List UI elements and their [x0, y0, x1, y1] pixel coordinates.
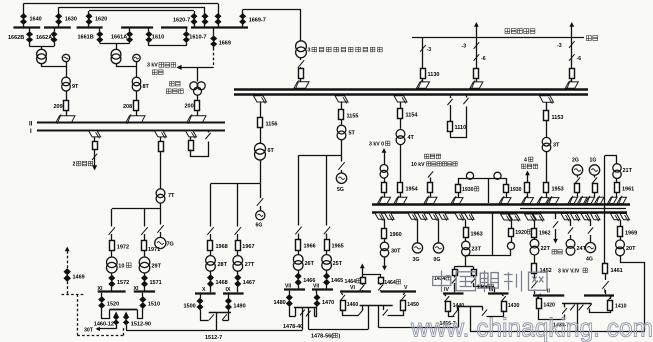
- generator 0G: [433, 243, 443, 253]
- fuse 2G: [575, 184, 580, 198]
- svg-text:-3: -3: [427, 47, 432, 53]
- label X: [202, 287, 206, 293]
- feeder line 572: [569, 22, 574, 69]
- svg-text:28T: 28T: [218, 262, 228, 268]
- slash no.3: [298, 58, 304, 68]
- load connector 208: [126, 114, 145, 124]
- wire 3G: [417, 219, 419, 242]
- breaker 1640: [20, 14, 26, 25]
- wire 6T upper: [260, 102, 262, 118]
- label 1456-7: [440, 321, 456, 327]
- breaker 1620: [86, 14, 92, 25]
- wire PT loop: [191, 142, 209, 157]
- bus section V: [380, 290, 416, 292]
- slash 1434yi: [452, 276, 457, 283]
- svg-text:30T: 30T: [84, 328, 94, 334]
- wire 30T down-arrow: [384, 257, 386, 266]
- label 22T: [541, 246, 551, 252]
- label VIII: [285, 284, 292, 290]
- label 24T: [577, 246, 587, 252]
- label 1155: [347, 114, 359, 120]
- fuse 1968: [208, 234, 213, 251]
- connector 22T below bus: [525, 214, 545, 222]
- svg-text:VII: VII: [285, 284, 292, 290]
- label 1572: [117, 280, 129, 286]
- breaker 1460-12: [113, 312, 119, 329]
- bus section IX: [223, 292, 244, 294]
- breaker 1661A: [127, 28, 133, 43]
- wire 1461 chain: [604, 263, 607, 265]
- label 6G: [256, 223, 263, 229]
- wire 1930jia drop: [458, 178, 460, 185]
- transformer 25T: [322, 251, 332, 271]
- svg-text:1460-12: 1460-12: [94, 322, 114, 328]
- bus section X: [195, 292, 216, 294]
- label II-sec: [547, 289, 550, 295]
- bridge bar VIII-VII: [294, 307, 316, 309]
- wire-6G: [260, 184, 262, 211]
- label 1465: [331, 278, 343, 284]
- wire drop x=194: [194, 11, 196, 27]
- svg-text:X: X: [202, 287, 206, 293]
- bus section IV: [443, 292, 464, 294]
- label 1461: [611, 268, 623, 274]
- breaker 1610: [146, 28, 152, 46]
- svg-text:1920: 1920: [515, 230, 527, 236]
- slash 1110 right: [463, 96, 468, 104]
- slash -6 (476): [474, 54, 480, 61]
- slash -3 (476): [474, 42, 480, 49]
- svg-text:1669: 1669: [219, 41, 231, 47]
- transformer 20T: [616, 237, 625, 256]
- label 208: [123, 104, 132, 110]
- bus section VIII: [284, 288, 305, 290]
- slash 1434jia: [471, 276, 476, 283]
- transformer 26T: [293, 251, 303, 271]
- load connector 209: [56, 114, 75, 124]
- label 23T: [472, 247, 482, 253]
- label 1962: [539, 231, 551, 237]
- wire 1930yi top: [488, 178, 506, 180]
- label 1669-7: [249, 18, 266, 24]
- svg-text:): ): [339, 334, 341, 340]
- svg-text:XI: XI: [98, 286, 103, 292]
- wire 7T header: [112, 203, 161, 209]
- connector 1920 below bus: [501, 214, 521, 222]
- label -6 (572): [577, 56, 582, 62]
- outgoing header line: [412, 37, 584, 39]
- svg-text:VI: VI: [350, 285, 355, 291]
- wire bridge drop left: [300, 308, 305, 331]
- svg-text:V: V: [404, 285, 408, 291]
- label 1469: [73, 275, 85, 281]
- svg-text:5G: 5G: [337, 187, 344, 193]
- svg-text:25T: 25T: [333, 261, 343, 267]
- outgoing feeder connector: [89, 131, 101, 139]
- transformer 22T: [530, 237, 539, 255]
- label 3kV V-IV section (CJK): [558, 268, 587, 274]
- fuse 1420: [536, 294, 541, 309]
- svg-text:8T: 8T: [143, 84, 150, 90]
- label 10kV loads (CJK): [411, 154, 457, 168]
- PT circle 1920: [507, 237, 514, 250]
- svg-text:26T: 26T: [305, 261, 315, 267]
- svg-text:www. chinaqking. com: www. chinaqking. com: [410, 313, 653, 342]
- watermark wang: [529, 272, 548, 290]
- wire 1470 link: [315, 308, 318, 317]
- label 1452: [540, 268, 552, 274]
- label 1467: [243, 280, 255, 286]
- slash 1464jia: [378, 284, 383, 291]
- breaker 1490: [225, 294, 231, 320]
- label 1156: [266, 122, 278, 128]
- wire 1461 drop: [604, 156, 606, 264]
- label 1662A: [36, 35, 52, 41]
- fuse 1971: [142, 234, 147, 251]
- bridge bar XII-XI: [109, 309, 137, 311]
- wire 4T down: [400, 145, 402, 184]
- feeder 1130: [420, 37, 426, 68]
- wire drop 28T: [210, 184, 212, 227]
- label 1571: [150, 280, 162, 286]
- fuse 1953: [544, 183, 549, 193]
- svg-text:1571: 1571: [150, 280, 162, 286]
- label 3T: [553, 143, 560, 149]
- label VII: [313, 284, 320, 290]
- svg-text:IV: IV: [444, 287, 449, 293]
- slash 2G: [575, 175, 580, 183]
- label 1965: [332, 244, 344, 250]
- label 7G: [167, 242, 174, 248]
- label XI: [134, 286, 139, 292]
- wire fuse200 to bus: [197, 110, 199, 116]
- wire 1434-7 interconnect: [470, 331, 645, 333]
- wire 1430 link: [487, 311, 504, 317]
- arrow load down: [553, 239, 558, 244]
- fuse 1969: [618, 220, 623, 237]
- svg-text:1965: 1965: [332, 244, 344, 250]
- svg-text:1480: 1480: [274, 300, 286, 306]
- wire 572 to bus: [571, 78, 573, 82]
- svg-text:1953: 1953: [552, 187, 564, 193]
- wire bridge drop right: [306, 308, 311, 330]
- transformer 21T: [613, 164, 621, 179]
- breaker 1469: [64, 269, 71, 282]
- svg-text:23T: 23T: [472, 247, 482, 253]
- svg-text:-3: -3: [557, 43, 562, 49]
- label 1954: [406, 187, 419, 193]
- fuse 10kV loads: [428, 178, 433, 193]
- label 4 load lines (CJK): [522, 157, 538, 168]
- svg-text:27T: 27T: [245, 262, 255, 268]
- wire top line D to standby transformer: [243, 9, 301, 11]
- svg-text:1661A: 1661A: [111, 35, 127, 41]
- svg-text:6G: 6G: [256, 223, 263, 229]
- fuse 1153: [544, 111, 549, 121]
- svg-text:1969: 1969: [625, 231, 637, 237]
- label 4G: [586, 257, 593, 263]
- breaker (line B tie): [202, 14, 208, 25]
- svg-text:20T: 20T: [626, 246, 636, 252]
- label new startup transformer (CJK): [167, 81, 184, 93]
- wire 9T to fuse: [66, 91, 68, 100]
- wire 3kV0 to bus: [384, 193, 386, 198]
- generator 5G: [336, 170, 346, 183]
- wire 22T-1452: [534, 255, 536, 264]
- wire 1669 dashed drop: [213, 48, 215, 67]
- PT circle (1662 unit): [62, 54, 69, 61]
- label 1920jia: [515, 230, 531, 236]
- label -6 (476): [481, 56, 486, 62]
- wire outgoing with slash: [92, 150, 97, 166]
- svg-text:1662B: 1662B: [8, 35, 24, 41]
- wire 3T down: [546, 152, 548, 183]
- bus section II: [533, 294, 564, 296]
- connector 1930jia on bus: [451, 196, 463, 205]
- label 4T: [408, 135, 415, 141]
- slash 28T: [207, 227, 213, 235]
- label 1630: [65, 17, 77, 23]
- breaker 1669-7: [240, 14, 246, 25]
- label 1434jia: [477, 284, 493, 290]
- label 1480: [274, 300, 286, 306]
- wire bridge drop W3: [368, 306, 370, 330]
- label 1953: [552, 187, 564, 193]
- svg-text:-6: -6: [481, 56, 486, 62]
- bus segment 161-187.5: [161, 26, 188, 28]
- bus segment 191-248: [191, 26, 248, 28]
- fuse no.3: [299, 67, 304, 79]
- connector no.3 on bus: [294, 80, 309, 90]
- label 5T: [349, 131, 356, 137]
- 10kV bus upper: [372, 203, 630, 206]
- slash 24T: [568, 220, 573, 240]
- label 1610-7: [189, 35, 206, 41]
- svg-text:1963: 1963: [471, 232, 483, 238]
- svg-text:1430: 1430: [508, 303, 520, 309]
- label side bus (CJK): [587, 36, 598, 41]
- label 1154: [406, 113, 419, 119]
- svg-text:1930: 1930: [510, 187, 522, 193]
- arrow up 1464yi: [360, 264, 365, 269]
- breaker 1572: [109, 273, 115, 291]
- label XII: [98, 286, 103, 292]
- breaker 1630: [56, 14, 62, 25]
- wire dashed 1469 lower: [67, 282, 69, 295]
- label 1963: [471, 232, 483, 238]
- label IV: [444, 287, 449, 293]
- fuse 1155: [339, 110, 344, 120]
- svg-text:1460: 1460: [347, 302, 359, 308]
- label 1460: [347, 302, 359, 308]
- wire drop x=242.7: [242, 10, 244, 28]
- fuse 1440: [446, 302, 451, 312]
- svg-text:VII: VII: [313, 284, 320, 290]
- label III: [489, 287, 494, 293]
- slash 25T: [324, 227, 330, 235]
- connector 476 on bus: [470, 80, 483, 89]
- svg-text:3T: 3T: [553, 143, 560, 149]
- wire top line C: [89, 10, 194, 12]
- label no.3 standby transformer (CJK): [308, 47, 383, 53]
- wire drop 25T: [326, 155, 328, 225]
- label 1440: [453, 303, 465, 309]
- bridge bar VI-V: [360, 305, 393, 307]
- svg-text:3: 3: [308, 48, 311, 54]
- arrow 4 load lines: [525, 171, 530, 176]
- breaker 1610-7: [183, 28, 189, 46]
- label 30T: [84, 328, 94, 334]
- svg-text:1490: 1490: [233, 304, 245, 310]
- svg-text:2: 2: [73, 162, 76, 168]
- breaker 1571: [141, 273, 147, 291]
- wire drop 29T: [144, 209, 146, 227]
- label 1669: [219, 41, 231, 47]
- fuse 1464yi: [361, 278, 366, 284]
- label 1420: [543, 303, 555, 309]
- label V: [404, 285, 408, 291]
- wire bridge drop W4: [378, 306, 380, 328]
- label 3kV spare section (CJK): [147, 63, 176, 75]
- wire 1410 link: [590, 309, 611, 313]
- wire 1512-7 interconnect: [126, 330, 302, 332]
- slash 1G: [592, 175, 597, 183]
- wire 1930jia to bus: [458, 193, 460, 198]
- label 4 outgoing lines (CJK): [505, 29, 535, 34]
- arrow 30T down: [382, 266, 387, 271]
- label 26T: [305, 261, 315, 267]
- svg-text:1420: 1420: [543, 303, 555, 309]
- wire 1434 header: [454, 267, 473, 270]
- label 2 outgoing lines (CJK): [73, 161, 93, 167]
- wire join 1661: [100, 43, 130, 50]
- wire 3kV0: [384, 153, 386, 165]
- svg-text:1130: 1130: [428, 72, 440, 78]
- connector 0G below bus: [429, 213, 448, 221]
- bus I: [37, 130, 225, 132]
- wire dashed riser: [123, 327, 125, 336]
- slash 1450: [401, 293, 406, 301]
- svg-text:1966: 1966: [304, 244, 316, 250]
- label IX: [226, 287, 231, 293]
- slash 7G: [157, 225, 163, 233]
- label 1930jia: [462, 187, 479, 193]
- fuse 209: [64, 101, 69, 111]
- fuse 1965: [325, 234, 330, 251]
- label 1464yi: [345, 279, 361, 285]
- slash 1460-bridge: [358, 306, 363, 316]
- label I-sec: [604, 289, 606, 295]
- connector 4loads on bus: [522, 196, 534, 205]
- bus segment 13.4-40.2: [13, 26, 40, 28]
- connector 3kV0 on 10kV bus: [378, 196, 391, 205]
- label 1966: [304, 244, 316, 250]
- label II: [29, 122, 33, 128]
- label 20T: [626, 246, 636, 252]
- fuse 7T feeder: [159, 137, 164, 152]
- slash 1410-bridge: [587, 304, 592, 310]
- fuse 1410: [608, 295, 613, 310]
- wire 1153-3T: [546, 121, 548, 137]
- label 28T: [218, 262, 228, 268]
- label 1500: [184, 304, 196, 310]
- slash PT loop: [205, 131, 210, 139]
- connector 21T on bus: [608, 196, 627, 205]
- connector 1130 on bus: [417, 80, 430, 89]
- label 1960: [390, 232, 402, 238]
- arrow to 3kV spare section: [176, 65, 181, 70]
- svg-text:3 kV: 3 kV: [147, 63, 158, 69]
- svg-text:1520: 1520: [107, 302, 119, 308]
- svg-text:1478-40: 1478-40: [283, 324, 303, 330]
- breaker 1512-90: [123, 312, 129, 331]
- svg-text:200: 200: [185, 104, 194, 110]
- bus section VI: [340, 290, 371, 292]
- label 1450: [407, 302, 419, 308]
- svg-text:0G: 0G: [434, 257, 441, 263]
- 10kV bus lower: [372, 211, 627, 214]
- svg-text:7T: 7T: [168, 193, 175, 199]
- wire 1520 link: [102, 310, 110, 319]
- svg-text:-6: -6: [577, 56, 582, 62]
- transformer 29T: [139, 251, 150, 274]
- watermark guo: [456, 272, 475, 291]
- wire 21T loop top: [605, 156, 617, 164]
- wire 23T bottom bar: [466, 256, 512, 267]
- svg-text:22T: 22T: [541, 246, 551, 252]
- breaker 1468: [207, 271, 213, 292]
- slash 1461: [602, 274, 608, 294]
- slash 1440-bridge: [453, 306, 458, 316]
- connector 5T on bus: [335, 96, 348, 104]
- svg-text:1510: 1510: [148, 302, 160, 308]
- svg-text:1640: 1640: [30, 17, 42, 23]
- svg-text:1962: 1962: [539, 231, 551, 237]
- wire 1110 loop: [451, 107, 467, 138]
- slash 1460: [340, 293, 345, 301]
- label 7T: [168, 193, 175, 199]
- label 1430: [508, 303, 520, 309]
- wire to 30T: [97, 328, 116, 330]
- svg-text:1468: 1468: [216, 280, 228, 286]
- connector 4T on 10kV bus: [394, 196, 407, 205]
- svg-text:1464: 1464: [345, 279, 357, 285]
- watermark url: [410, 313, 653, 342]
- svg-text:1960: 1960: [390, 232, 402, 238]
- label 1130: [428, 72, 440, 78]
- bridge bar X-IX: [209, 312, 231, 314]
- connector 1930yi on bus: [499, 196, 511, 205]
- label 8T: [143, 84, 150, 90]
- svg-text:1500: 1500: [184, 304, 196, 310]
- connector 1G on bus: [585, 196, 604, 205]
- fuse 1966: [296, 234, 301, 251]
- wire fuse209 to bus: [66, 110, 68, 116]
- fuse 1430: [502, 302, 507, 312]
- label 30T: [391, 249, 401, 255]
- breaker 1662A: [51, 28, 57, 47]
- breaker 1620-7: [191, 14, 197, 25]
- svg-text:3 kV 0: 3 kV 0: [369, 142, 384, 148]
- wire 1464 header: [362, 268, 380, 278]
- wire 1420 link: [539, 309, 565, 320]
- fuse 1930jia: [456, 185, 461, 193]
- wire dashed 1469 upper: [67, 251, 69, 268]
- connector 3G below bus: [408, 213, 427, 221]
- breaker 1661B: [97, 28, 103, 43]
- fuse 1963: [464, 219, 469, 237]
- fuse 1967: [236, 234, 241, 251]
